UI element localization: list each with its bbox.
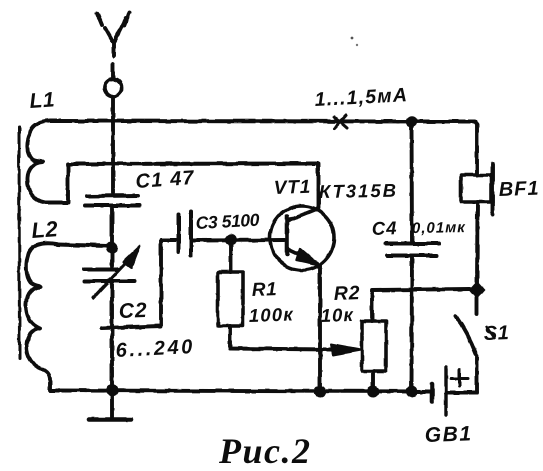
inductor L2	[26, 243, 57, 389]
node top-right junction dot	[406, 116, 418, 128]
wiper arrow into R2	[331, 345, 361, 356]
junction dot ground node	[106, 384, 119, 397]
variable capacitor C2	[84, 246, 140, 390]
svg-text:GB1: GB1	[424, 422, 472, 447]
svg-text:C3 5100: C3 5100	[195, 210, 260, 233]
wire battery plus to S1	[446, 391, 477, 395]
svg-text:R1: R1	[251, 279, 277, 301]
junction dot emitter node	[314, 386, 326, 398]
svg-text:100к: 100к	[248, 303, 294, 326]
capacitor C4	[386, 244, 439, 256]
svg-text:C4: C4	[371, 217, 397, 239]
svg-text:0,01мк: 0,01мк	[412, 219, 467, 237]
wire top bus right corner to BF1	[475, 122, 477, 176]
ground symbol	[89, 391, 131, 420]
wire C1 to node A	[110, 209, 114, 244]
svg-text:10к: 10к	[320, 304, 354, 326]
node B junction dot	[225, 234, 237, 246]
strike through S of S1	[486, 326, 495, 339]
capacitor C1	[85, 196, 139, 206]
wire bottom rail	[50, 391, 432, 392]
switch S1	[456, 298, 477, 392]
node X current break marker	[334, 116, 347, 129]
wire node A to L2	[57, 245, 107, 247]
antenna WA1	[97, 13, 130, 193]
svg-text:6...240: 6...240	[115, 336, 195, 362]
resistor R1	[218, 272, 243, 326]
junction dot C4 bottom node	[406, 386, 418, 398]
svg-text:BF1: BF1	[498, 178, 540, 201]
svg-text:VT1: VT1	[273, 177, 311, 199]
svg-text:L1: L1	[29, 88, 56, 113]
wire L1 bottom to collector	[68, 162, 318, 166]
node D diamond junction	[469, 281, 485, 299]
svg-text:КТ315В: КТ315В	[319, 180, 398, 202]
speck marks	[351, 37, 354, 40]
wire R1 bottom to wiper	[230, 326, 332, 350]
wire BF1 to node D	[475, 202, 479, 283]
svg-text:Рис.2: Рис.2	[218, 431, 312, 471]
svg-text:S1: S1	[483, 322, 509, 345]
battery GB1	[432, 367, 468, 415]
wire top bus	[50, 119, 475, 123]
inductor L1	[27, 121, 68, 203]
capacitor C3	[179, 211, 192, 255]
transistor VT1	[270, 164, 334, 390]
wire R2 bottom to rail	[371, 371, 375, 391]
junction dot R2 bottom node	[367, 386, 379, 398]
wire C3 to base	[193, 238, 284, 242]
resistor R2	[362, 321, 386, 371]
svg-text:C2: C2	[118, 299, 148, 323]
wire R2 top to node D	[372, 289, 470, 321]
wire node B to R1	[229, 242, 233, 272]
svg-text:C1 47: C1 47	[135, 167, 196, 193]
wire C3 tap to ground rail	[102, 240, 176, 328]
svg-text:L2: L2	[31, 216, 60, 243]
wire node to C4	[410, 126, 414, 241]
svg-text:R2: R2	[333, 282, 360, 305]
wire C4 to bottom rail	[410, 258, 414, 391]
headphone BF1	[461, 164, 493, 214]
magnetic core rod	[18, 127, 22, 358]
node A junction dot	[106, 242, 118, 254]
